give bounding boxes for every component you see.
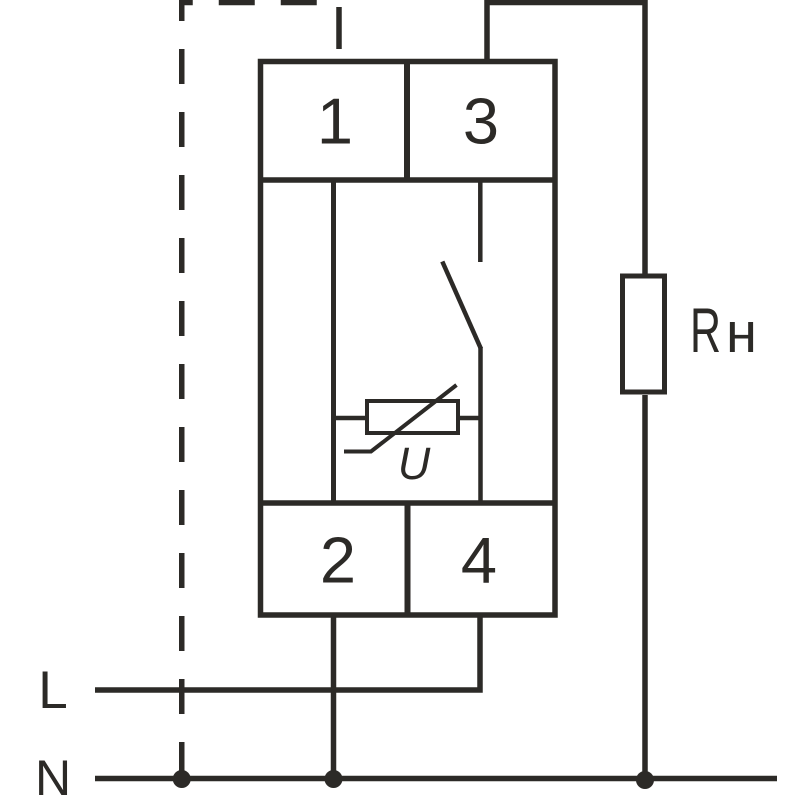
svg-text:R: R: [690, 296, 721, 366]
svg-text:4: 4: [461, 524, 497, 597]
svg-text:3: 3: [463, 85, 499, 158]
svg-text:L: L: [38, 661, 67, 720]
svg-text:1: 1: [317, 85, 353, 158]
svg-text:U: U: [398, 438, 431, 489]
svg-text:н: н: [726, 301, 757, 365]
svg-text:2: 2: [320, 524, 356, 597]
svg-text:N: N: [35, 750, 71, 799]
